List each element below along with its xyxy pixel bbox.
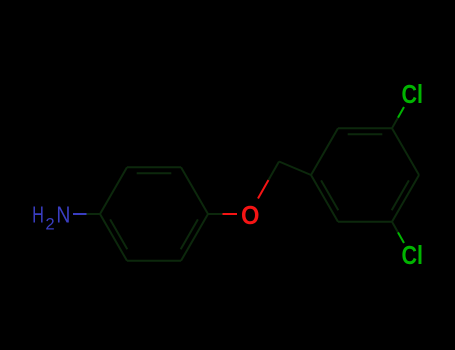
svg-text:O: O xyxy=(241,200,260,230)
svg-text:H: H xyxy=(32,202,44,228)
svg-text:Cl: Cl xyxy=(402,81,424,109)
svg-text:Cl: Cl xyxy=(402,242,424,270)
svg-text:N: N xyxy=(56,202,70,228)
svg-text:2: 2 xyxy=(45,216,54,234)
